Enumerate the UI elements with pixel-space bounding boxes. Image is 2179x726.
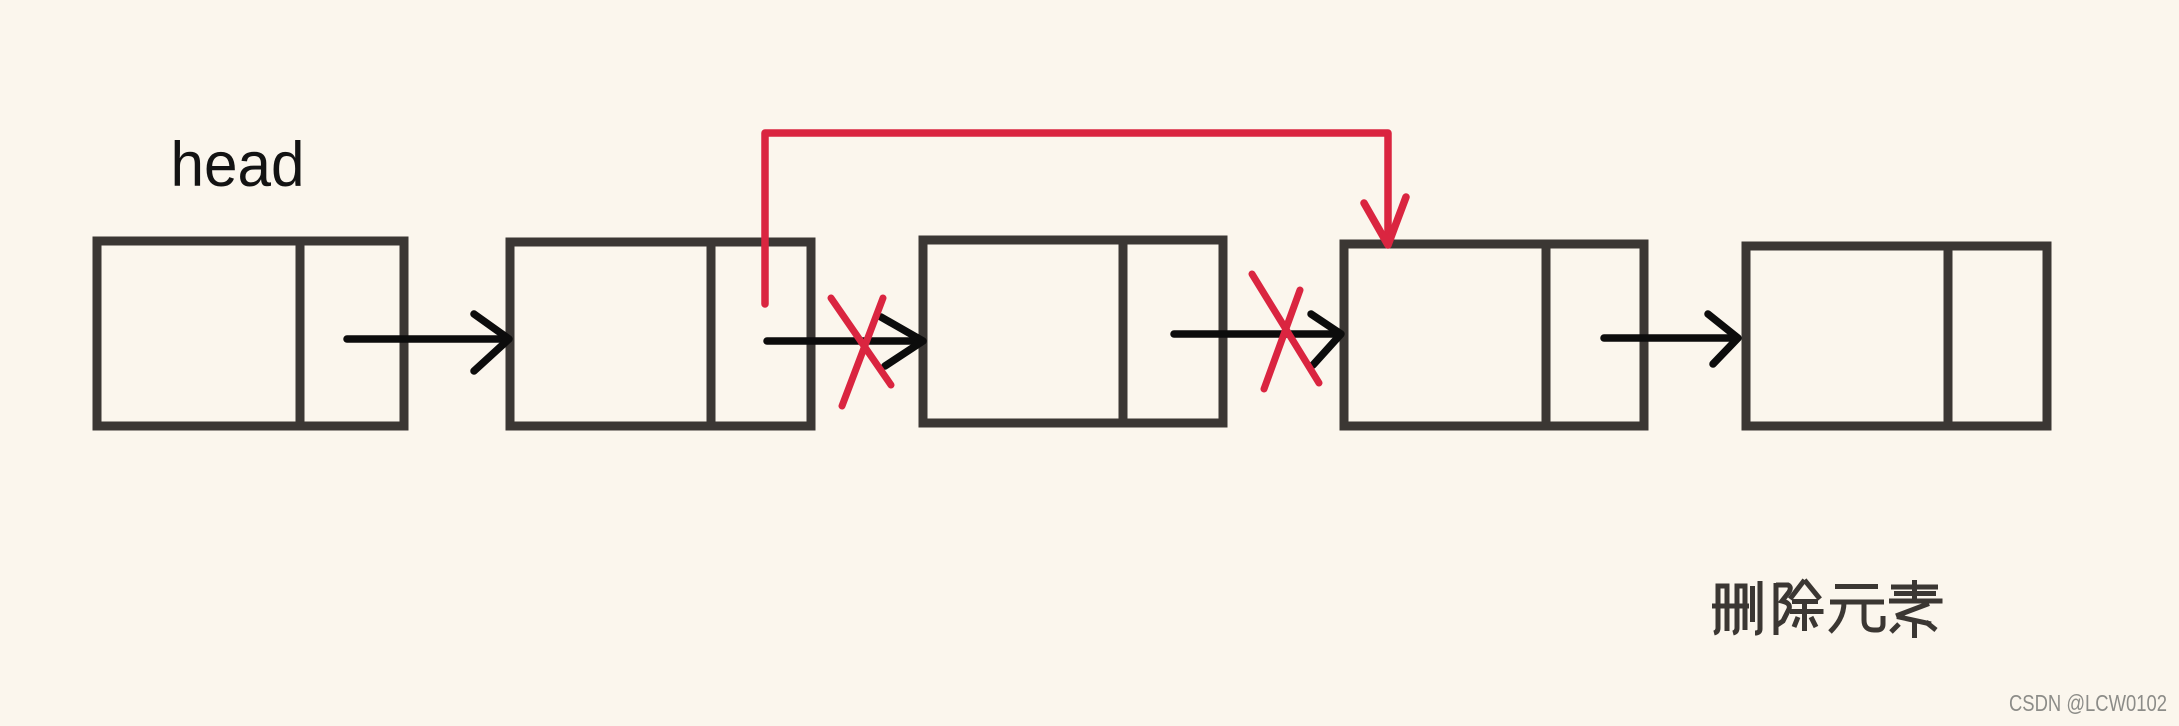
svg-text:head: head [171,130,305,200]
red bypass pointer from box2 to box4 [765,133,1406,304]
node box 1 [97,241,404,426]
arrow box3 to box4 (crossed out) [1174,314,1341,365]
arrow box2 to box3 (crossed out) [767,317,923,366]
red X over arrow box2 to box3 [831,298,891,406]
red X over arrow box3 to box4 [1252,274,1319,389]
arrow box1 to box2 [347,314,509,371]
caption: hanzi shan (delete) char 1 [1712,581,1760,633]
svg-text:CSDN @LCW0102: CSDN @LCW0102 [2009,690,2167,716]
node box 5 [1746,246,2047,426]
arrow box4 to box5 [1604,314,1738,364]
node box 2 [510,242,811,426]
caption: hanzi yuan (element) char 3 [1830,587,1884,633]
caption: hanzi su (element) char 4 [1889,580,1943,638]
node box 4 [1344,244,1644,426]
caption: hanzi chu (remove) char 2 [1776,580,1824,635]
node box 3 [923,240,1223,423]
